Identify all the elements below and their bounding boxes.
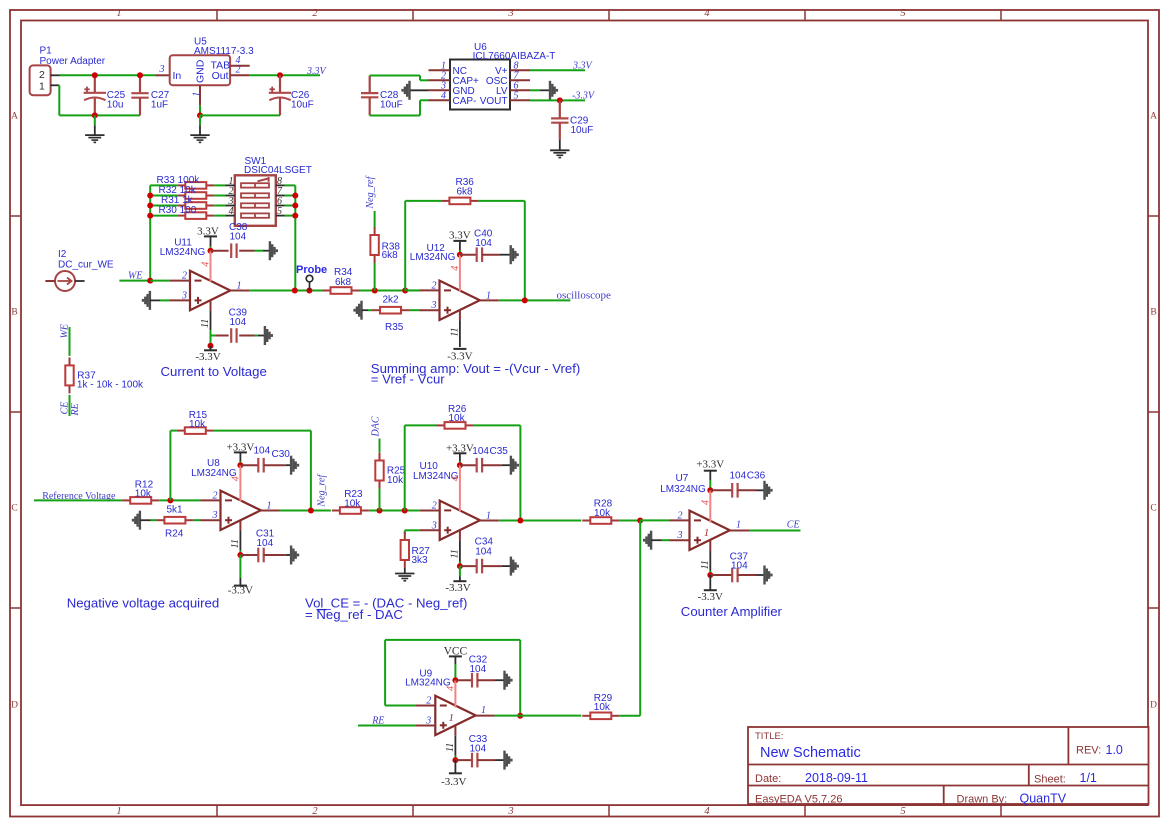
svg-text:10k: 10k: [189, 419, 206, 430]
svg-text:4: 4: [700, 500, 711, 505]
svg-text:10k: 10k: [594, 702, 611, 713]
svg-text:1.0: 1.0: [1106, 743, 1123, 757]
svg-text:10uF: 10uF: [380, 99, 403, 110]
svg-text:RE: RE: [70, 403, 81, 416]
svg-text:3: 3: [159, 64, 165, 75]
svg-text:11: 11: [230, 539, 241, 548]
svg-text:3: 3: [677, 530, 683, 541]
svg-text:B: B: [1150, 308, 1156, 318]
svg-text:2k2: 2k2: [383, 294, 400, 305]
svg-text:I2: I2: [58, 249, 67, 260]
svg-text:oscilloscope: oscilloscope: [557, 289, 611, 301]
svg-text:11: 11: [449, 327, 460, 336]
svg-text:3.3V: 3.3V: [572, 61, 594, 72]
svg-text:Power Adapter: Power Adapter: [40, 56, 106, 67]
svg-text:LM324NG: LM324NG: [405, 677, 451, 688]
svg-text:104: 104: [475, 546, 492, 557]
svg-text:2018-09-11: 2018-09-11: [805, 771, 868, 785]
svg-text:-3.3V: -3.3V: [572, 91, 596, 102]
svg-text:11: 11: [449, 549, 460, 558]
svg-text:104: 104: [254, 445, 271, 456]
svg-text:CAP-: CAP-: [453, 96, 477, 107]
svg-text:3.3V: 3.3V: [306, 66, 328, 77]
svg-text:10k: 10k: [344, 499, 361, 510]
svg-text:3: 3: [507, 8, 513, 19]
svg-text:10k: 10k: [387, 475, 404, 486]
svg-text:5: 5: [900, 8, 905, 19]
svg-text:Negative voltage acquired: Negative voltage acquired: [67, 596, 220, 611]
svg-text:3: 3: [212, 510, 218, 521]
svg-text:Probe: Probe: [296, 264, 327, 276]
svg-text:1: 1: [486, 511, 491, 522]
svg-text:EasyEDA V5.7.26: EasyEDA V5.7.26: [755, 794, 842, 806]
svg-text:4: 4: [445, 686, 456, 691]
svg-text:3: 3: [507, 806, 513, 817]
svg-text:Date:: Date:: [755, 773, 781, 785]
svg-text:2: 2: [312, 8, 318, 19]
svg-text:1: 1: [704, 527, 710, 539]
svg-text:R30 100: R30 100: [159, 205, 197, 216]
svg-text:1: 1: [486, 290, 491, 301]
svg-text:104: 104: [731, 561, 748, 572]
svg-text:-3.3V: -3.3V: [195, 351, 220, 363]
svg-text:10u: 10u: [107, 99, 124, 110]
svg-text:5k1: 5k1: [167, 504, 184, 515]
svg-text:4: 4: [201, 262, 212, 267]
svg-text:3k3: 3k3: [412, 555, 429, 566]
svg-text:1: 1: [736, 519, 741, 530]
svg-text:In: In: [173, 70, 182, 82]
svg-text:2: 2: [213, 490, 218, 501]
svg-text:5: 5: [900, 806, 905, 817]
svg-text:104: 104: [230, 317, 247, 328]
svg-text:2: 2: [432, 280, 437, 291]
svg-text:6k8: 6k8: [457, 187, 474, 198]
svg-text:R24: R24: [165, 529, 184, 540]
svg-text:C35: C35: [490, 446, 509, 457]
svg-text:3: 3: [425, 716, 431, 727]
svg-text:11: 11: [700, 560, 711, 569]
svg-text:10k: 10k: [449, 413, 466, 424]
svg-text:+3.3V: +3.3V: [696, 459, 724, 471]
svg-text:10k: 10k: [135, 488, 152, 499]
svg-text:1: 1: [481, 705, 486, 716]
svg-text:R35: R35: [385, 322, 404, 333]
svg-text:DC_cur_WE: DC_cur_WE: [58, 260, 114, 271]
svg-text:Counter Amplifier: Counter Amplifier: [681, 604, 783, 619]
svg-text:Out: Out: [212, 70, 229, 82]
svg-text:4: 4: [450, 476, 461, 481]
svg-text:2: 2: [426, 696, 431, 707]
svg-text:2: 2: [432, 501, 437, 512]
svg-text:4: 4: [229, 206, 234, 217]
svg-text:4: 4: [704, 8, 710, 19]
svg-text:1: 1: [116, 806, 121, 817]
svg-text:1/1: 1/1: [1080, 771, 1097, 785]
svg-text:3: 3: [431, 300, 437, 311]
svg-text:4: 4: [704, 806, 710, 817]
svg-text:Current to Voltage: Current to Voltage: [161, 364, 267, 379]
svg-text:1k - 10k - 100k: 1k - 10k - 100k: [77, 380, 144, 391]
svg-text:10uF: 10uF: [291, 99, 314, 110]
svg-text:104: 104: [475, 238, 492, 249]
svg-text:1: 1: [191, 92, 202, 97]
svg-text:3.3V: 3.3V: [449, 229, 471, 241]
svg-text:1: 1: [39, 81, 45, 93]
svg-text:4: 4: [230, 476, 241, 481]
svg-text:TITLE:: TITLE:: [755, 731, 784, 742]
svg-text:11: 11: [200, 319, 211, 328]
svg-text:104: 104: [470, 744, 487, 755]
svg-text:6k8: 6k8: [335, 277, 352, 288]
svg-text:-3.3V: -3.3V: [698, 591, 723, 603]
svg-text:GND: GND: [195, 59, 207, 83]
svg-text:D: D: [11, 701, 18, 711]
svg-text:104: 104: [257, 538, 274, 549]
svg-text:A: A: [1150, 112, 1157, 122]
svg-text:= Vref - Vcur: = Vref - Vcur: [371, 372, 446, 387]
svg-text:AMS1117-3.3: AMS1117-3.3: [194, 46, 254, 57]
svg-text:U7: U7: [676, 473, 689, 484]
svg-text:C36: C36: [747, 471, 766, 482]
svg-text:LM324NG: LM324NG: [660, 484, 706, 495]
svg-text:3: 3: [431, 520, 437, 531]
svg-text:2: 2: [236, 64, 241, 75]
svg-text:-3.3V: -3.3V: [441, 776, 466, 788]
svg-text:A: A: [11, 112, 18, 122]
svg-text:C: C: [11, 504, 17, 514]
svg-text:5: 5: [277, 206, 282, 217]
svg-text:2: 2: [39, 69, 45, 81]
svg-text:1: 1: [267, 501, 272, 512]
svg-text:2: 2: [182, 271, 187, 282]
svg-text:3: 3: [181, 290, 187, 301]
svg-text:6k8: 6k8: [382, 250, 399, 261]
svg-text:4: 4: [450, 266, 461, 271]
svg-text:Neg_ref: Neg_ref: [365, 175, 376, 209]
svg-text:DAC: DAC: [371, 416, 382, 437]
svg-text:New Schematic: New Schematic: [760, 745, 861, 761]
svg-text:LM324NG: LM324NG: [160, 247, 206, 258]
svg-text:1: 1: [116, 8, 121, 19]
svg-text:C: C: [1150, 504, 1156, 514]
svg-text:1uF: 1uF: [151, 99, 168, 110]
svg-text:104: 104: [472, 446, 489, 457]
svg-text:1: 1: [449, 712, 455, 724]
svg-text:D: D: [1150, 701, 1157, 711]
svg-text:QuanTV: QuanTV: [1020, 792, 1067, 806]
svg-text:CE: CE: [787, 520, 800, 531]
svg-text:LM324NG: LM324NG: [410, 252, 456, 263]
svg-text:-3.3V: -3.3V: [228, 585, 253, 597]
svg-text:B: B: [11, 308, 17, 318]
svg-text:CE: CE: [59, 402, 70, 415]
svg-text:Neg_ref: Neg_ref: [316, 474, 327, 508]
svg-text:11: 11: [445, 743, 456, 752]
svg-text:REV:: REV:: [1076, 745, 1101, 757]
svg-text:10k: 10k: [594, 508, 611, 519]
svg-text:-3.3V: -3.3V: [445, 582, 470, 594]
svg-text:2: 2: [678, 510, 683, 521]
svg-text:C30: C30: [272, 449, 291, 460]
svg-text:104: 104: [230, 232, 247, 243]
svg-text:Drawn By:: Drawn By:: [957, 794, 1008, 806]
svg-text:Sheet:: Sheet:: [1034, 774, 1066, 786]
svg-text:VOUT: VOUT: [480, 96, 508, 107]
svg-text:104: 104: [470, 664, 487, 675]
svg-text:2: 2: [312, 806, 318, 817]
svg-text:1: 1: [237, 281, 242, 292]
svg-text:104: 104: [730, 471, 747, 482]
svg-text:4: 4: [441, 90, 446, 101]
svg-text:10uF: 10uF: [571, 125, 594, 136]
svg-text:P1: P1: [40, 46, 53, 57]
